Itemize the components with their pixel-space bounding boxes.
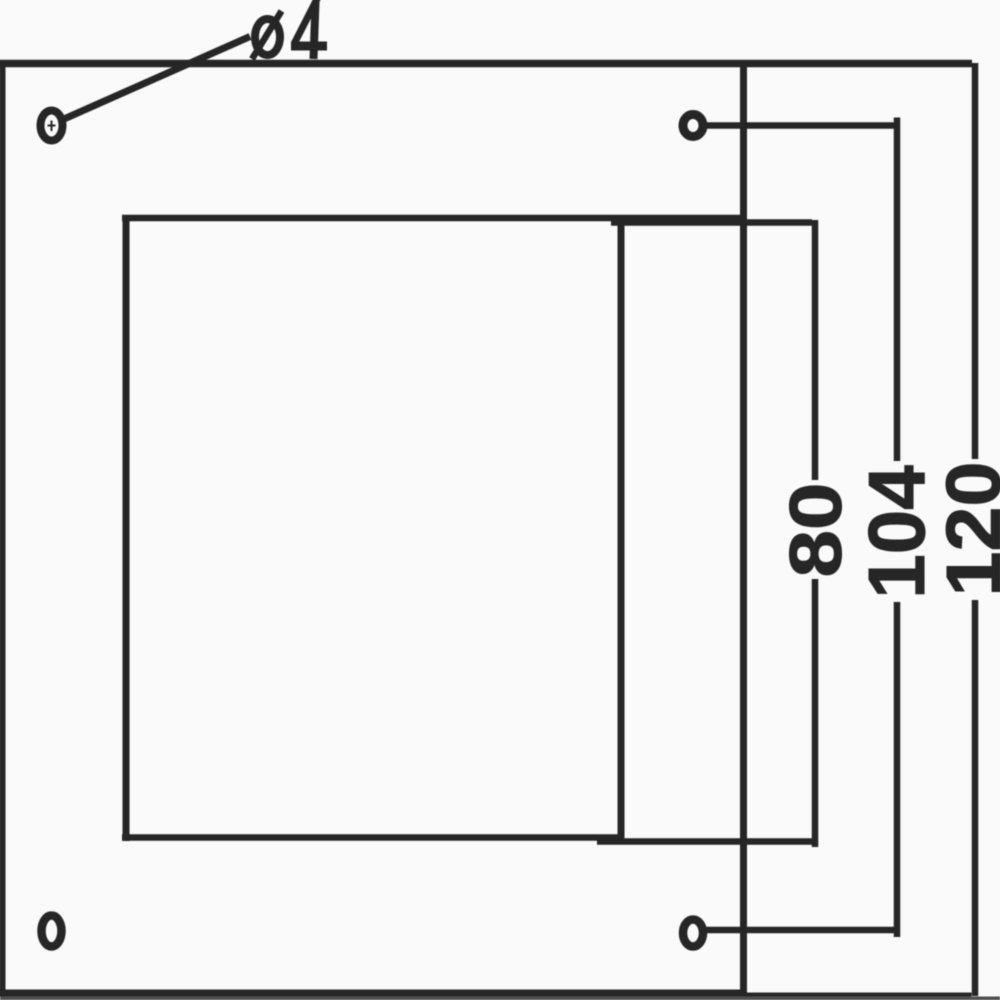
dimension line 120 lower segment (972, 600, 979, 996)
inner window top edge (122, 215, 747, 222)
panel outline left edge (0, 60, 6, 995)
inner window top extension line for 80 dimension (611, 219, 812, 226)
digit 4 of label Ø4 (291, 0, 327, 59)
mounting hole bottom-right (683, 920, 703, 947)
bottom extension line for 120 dimension (743, 993, 972, 1000)
extension line from top-right hole (700, 122, 900, 129)
leader line from top-left hole to diameter label (64, 37, 250, 120)
dimension line 80 lower segment (812, 579, 819, 847)
dimension line 104 lower segment (894, 602, 901, 937)
extension line from bottom-right hole (700, 927, 900, 934)
svg-text:120: 120 (931, 462, 1000, 597)
scan artifact strip at image bottom (0, 997, 1000, 1000)
inner window divider vertical line (618, 215, 625, 841)
dimension line 104 upper segment (894, 118, 901, 462)
inner window bottom extension line for 80 dimension (597, 838, 812, 845)
svg-text:104: 104 (852, 465, 941, 599)
panel outline bottom edge (0, 990, 747, 997)
mounting hole top-right (683, 115, 703, 137)
dimension line 80 upper segment (812, 220, 819, 480)
inner window left edge (123, 215, 130, 841)
panel outline top edge (with 120 extension) (0, 60, 972, 68)
dimension line 120 upper segment (972, 63, 979, 459)
inner window bottom edge (122, 834, 622, 841)
svg-text:80: 80 (775, 483, 857, 578)
mounting hole bottom-left (42, 916, 62, 947)
center mark cross of top-left hole (48, 121, 56, 132)
mounting hole top-left (41, 111, 63, 141)
diameter symbol of label Ø4 (252, 11, 282, 59)
panel outline right edge (740, 61, 747, 995)
